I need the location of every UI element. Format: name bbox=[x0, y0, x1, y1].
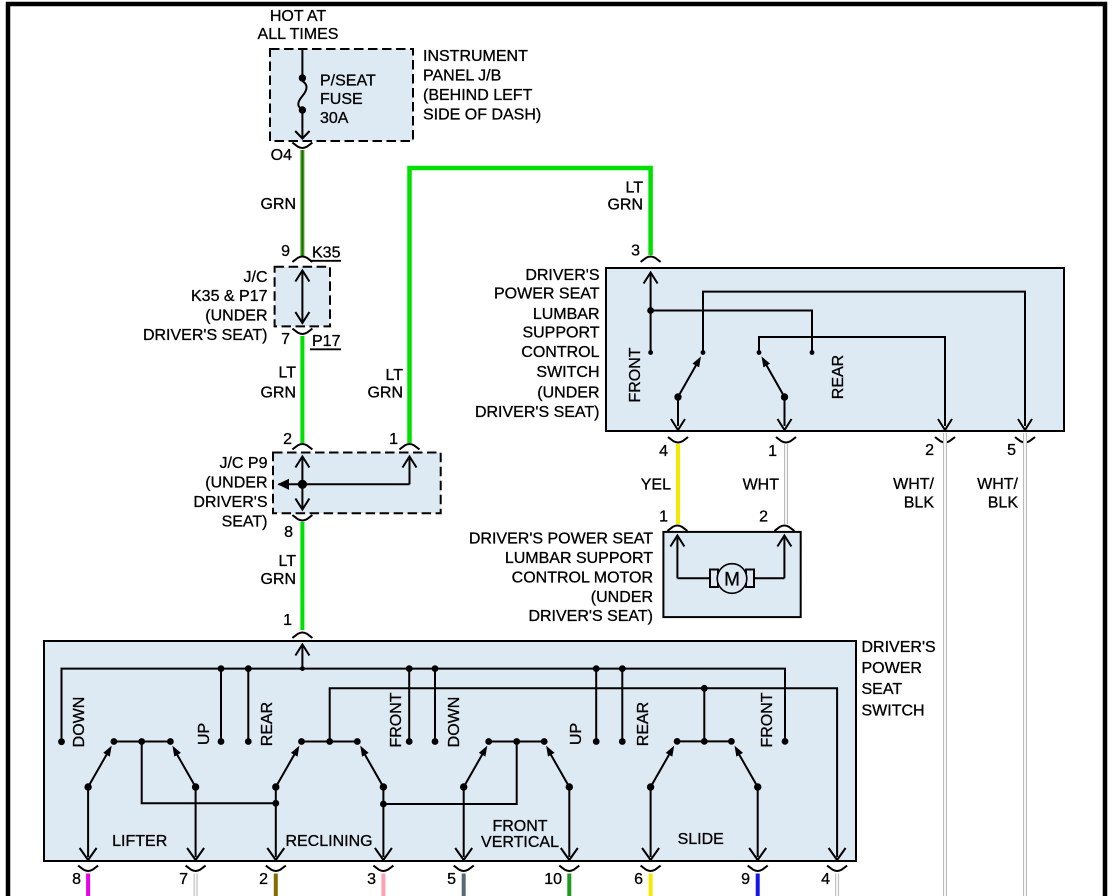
motor pin 1 entry arrow bbox=[670, 536, 710, 579]
wire: bus2 drop to slide common bbox=[703, 688, 705, 741]
pin 4 internal down arrow bbox=[829, 848, 846, 860]
pin 4 connector + wire WHT bbox=[821, 866, 847, 896]
svg-text:8: 8 bbox=[284, 524, 293, 541]
pin 3 connector + wire PNK bbox=[367, 866, 393, 896]
pin 7 connector + wire WHT bbox=[179, 866, 206, 896]
svg-text:1: 1 bbox=[389, 431, 398, 448]
stub UP (lifter) bbox=[218, 665, 225, 745]
svg-text:GRN: GRN bbox=[607, 197, 643, 214]
svg-text:DRIVER'S: DRIVER'S bbox=[525, 267, 599, 284]
svg-text:DOWN: DOWN bbox=[446, 697, 463, 748]
svg-text:1: 1 bbox=[283, 612, 292, 629]
wire LT GRN (J/C P9 pin 8 to seat switch pin 1) bbox=[260, 522, 302, 630]
lumbar contact D (fixed) bbox=[810, 350, 815, 355]
pin 5 connector + wire GRY bbox=[447, 866, 474, 896]
pin 1 connector (seat switch) bbox=[283, 612, 312, 638]
svg-text:HOT AT: HOT AT bbox=[270, 8, 327, 25]
pin 4 connector (lumbar switch) bbox=[659, 437, 688, 460]
svg-text:LIFTER: LIFTER bbox=[112, 833, 167, 850]
pin 2 connector (lumbar switch) bbox=[925, 437, 955, 459]
wire LT GRN (P17 to J/C P9 pin 2) bbox=[260, 336, 302, 443]
lumbar contact C (fixed) bbox=[757, 350, 762, 355]
slide contact row bbox=[674, 738, 735, 745]
svg-text:LT: LT bbox=[626, 179, 644, 196]
wire WHT/BLK (lumbar pin 2 down) bbox=[893, 433, 945, 896]
wire: reclining sw2 link to front vertical common bbox=[380, 742, 517, 808]
pin 6 connector + wire YEL bbox=[634, 866, 661, 896]
stub REAR (lifter) bbox=[245, 665, 252, 745]
stub DOWN (reclining) bbox=[432, 665, 439, 745]
svg-text:DRIVER'S SEAT): DRIVER'S SEAT) bbox=[528, 608, 653, 625]
pin 2 connector (lumbar motor) bbox=[759, 508, 794, 531]
svg-text:8: 8 bbox=[72, 871, 81, 888]
bus 1 (top feed bus) bbox=[62, 669, 786, 741]
lumbar support control motor M1 bbox=[469, 531, 801, 626]
wire LT GRN loop (J/C P9 pin 1 up and over to lumbar switch pin 3) bbox=[367, 168, 650, 443]
bus 2 (to pin 4) bbox=[330, 688, 837, 857]
svg-text:SEAT: SEAT bbox=[862, 681, 903, 698]
svg-text:LUMBAR: LUMBAR bbox=[533, 306, 600, 323]
svg-text:BLK: BLK bbox=[904, 495, 935, 512]
svg-text:SEAT): SEAT) bbox=[222, 514, 268, 531]
svg-text:(UNDER: (UNDER bbox=[205, 308, 267, 325]
svg-text:FRONT: FRONT bbox=[388, 692, 405, 747]
motor symbol M bbox=[710, 564, 754, 594]
lifter contact row bbox=[111, 738, 174, 745]
wire: contact C over to pin 2 bbox=[759, 337, 945, 426]
svg-text:3: 3 bbox=[367, 871, 376, 888]
svg-text:RECLINING: RECLINING bbox=[285, 833, 372, 850]
svg-text:9: 9 bbox=[741, 871, 750, 888]
pin 2 connector + wire BRN bbox=[259, 866, 286, 896]
svg-text:REAR: REAR bbox=[830, 355, 847, 399]
lumbar contact A (fixed, feed) bbox=[648, 350, 653, 355]
svg-text:SUPPORT: SUPPORT bbox=[522, 325, 599, 342]
pin 5 internal down arrow bbox=[1018, 419, 1032, 430]
pin 5 connector (lumbar switch) bbox=[1007, 437, 1035, 459]
svg-text:UP: UP bbox=[568, 723, 585, 745]
svg-text:SWITCH: SWITCH bbox=[862, 703, 925, 720]
svg-text:LT: LT bbox=[386, 367, 404, 384]
pin 1 connector (lumbar motor) bbox=[659, 508, 687, 531]
switch arm slide REAR (pin 6) bbox=[642, 744, 677, 860]
svg-text:SWITCH: SWITCH bbox=[536, 364, 599, 381]
svg-text:1: 1 bbox=[659, 508, 668, 525]
svg-text:SLIDE: SLIDE bbox=[678, 831, 724, 848]
pin 7 connector P17 bbox=[281, 329, 341, 350]
motor pin 2 entry arrow bbox=[754, 536, 792, 579]
svg-text:REAR: REAR bbox=[259, 702, 276, 746]
node: FRONT contact (slide) bbox=[782, 738, 789, 745]
stub UP (front vertical) bbox=[593, 665, 600, 745]
switch arm front vertical DOWN (pin 5) bbox=[455, 744, 490, 860]
svg-text:WHT/: WHT/ bbox=[893, 476, 934, 493]
pin 1 connector (J/C P9) bbox=[389, 431, 419, 449]
svg-text:CONTROL: CONTROL bbox=[521, 344, 599, 361]
switch arm reclining FRONT (pin 2) bbox=[267, 744, 302, 860]
seat switch pin 1 entry arrow bbox=[295, 645, 309, 671]
pin 9 connector K35 bbox=[281, 243, 341, 262]
svg-text:DRIVER'S: DRIVER'S bbox=[193, 494, 267, 511]
svg-text:FRONT: FRONT bbox=[627, 347, 644, 402]
pin 9 connector + wire BLU bbox=[741, 866, 768, 896]
pin 8 connector (J/C P9) bbox=[284, 515, 312, 541]
svg-text:ALL TIMES: ALL TIMES bbox=[258, 26, 339, 43]
svg-text:WHT/: WHT/ bbox=[977, 476, 1018, 493]
pin 8 connector + wire MAG bbox=[72, 866, 98, 896]
svg-text:GRN: GRN bbox=[367, 385, 403, 402]
svg-text:YEL: YEL bbox=[641, 477, 671, 494]
svg-text:4: 4 bbox=[659, 443, 668, 460]
pin O4 connector bbox=[271, 143, 313, 164]
pin 3 connector (lumbar switch) bbox=[631, 243, 661, 262]
svg-text:CONTROL MOTOR: CONTROL MOTOR bbox=[512, 569, 653, 586]
svg-text:(UNDER: (UNDER bbox=[537, 384, 599, 401]
pin 10 connector + wire GRN bbox=[544, 866, 579, 896]
svg-text:DOWN: DOWN bbox=[71, 697, 88, 748]
J/C K35 & P17 junction connector bbox=[143, 267, 330, 344]
svg-text:M: M bbox=[724, 570, 740, 591]
svg-text:2: 2 bbox=[925, 442, 934, 459]
svg-text:J/C: J/C bbox=[244, 269, 268, 286]
pin 2 internal down arrow bbox=[938, 419, 952, 430]
svg-text:GRN: GRN bbox=[260, 196, 296, 213]
wire: lifter common link to pin 2 stem bbox=[142, 742, 279, 807]
svg-text:3: 3 bbox=[631, 243, 640, 260]
svg-text:(UNDER: (UNDER bbox=[205, 475, 267, 492]
node: DOWN contact (lifter) bbox=[58, 738, 65, 745]
svg-text:2: 2 bbox=[283, 431, 292, 448]
svg-text:SIDE OF DASH): SIDE OF DASH) bbox=[423, 107, 541, 124]
svg-text:O4: O4 bbox=[271, 147, 292, 164]
stub FRONT (reclining) bbox=[406, 665, 413, 745]
svg-text:FUSE: FUSE bbox=[320, 91, 363, 108]
node: bus2 junction to slide bbox=[701, 685, 708, 692]
svg-text:GRN: GRN bbox=[260, 385, 296, 402]
front vertical contact row bbox=[485, 738, 547, 745]
svg-text:5: 5 bbox=[1007, 442, 1016, 459]
fuse P/SEAT FUSE 30A bbox=[295, 49, 376, 139]
wire: contact B up over to pin 5 bbox=[703, 292, 1025, 426]
switch arm reclining REAR (pin 3) bbox=[357, 744, 392, 860]
svg-text:WHT: WHT bbox=[743, 477, 780, 494]
lumbar switch arm REAR bbox=[758, 355, 847, 430]
svg-text:K35 & P17: K35 & P17 bbox=[191, 288, 268, 305]
svg-text:POWER: POWER bbox=[862, 660, 922, 677]
svg-text:(BEHIND LEFT: (BEHIND LEFT bbox=[423, 87, 533, 104]
svg-text:POWER SEAT: POWER SEAT bbox=[494, 285, 600, 302]
svg-text:FRONT: FRONT bbox=[759, 692, 776, 747]
svg-text:30A: 30A bbox=[320, 110, 349, 127]
svg-text:LT: LT bbox=[279, 365, 297, 382]
svg-text:4: 4 bbox=[821, 871, 830, 888]
svg-text:DRIVER'S SEAT): DRIVER'S SEAT) bbox=[143, 327, 268, 344]
svg-text:P17: P17 bbox=[312, 333, 341, 350]
lumbar switch pin 3 entry arrow bbox=[644, 273, 658, 352]
lumbar switch arm FRONT bbox=[627, 347, 704, 430]
svg-text:7: 7 bbox=[179, 871, 188, 888]
svg-text:FRONT: FRONT bbox=[492, 818, 547, 835]
reclining contact row bbox=[298, 738, 361, 745]
stub REAR (front vertical) bbox=[619, 665, 626, 745]
svg-text:7: 7 bbox=[281, 331, 290, 348]
svg-text:6: 6 bbox=[634, 871, 643, 888]
lumbar support control switch S1 bbox=[475, 267, 1064, 431]
instrument panel J/B box bbox=[270, 48, 541, 141]
svg-text:GRN: GRN bbox=[260, 571, 296, 588]
svg-text:UP: UP bbox=[196, 723, 213, 745]
svg-text:DRIVER'S POWER SEAT: DRIVER'S POWER SEAT bbox=[469, 531, 653, 548]
switch arm lifter DOWN (pin 8) bbox=[80, 744, 115, 860]
switch arm front vertical UP (pin 10) bbox=[543, 744, 578, 860]
svg-text:2: 2 bbox=[259, 871, 268, 888]
svg-text:1: 1 bbox=[768, 443, 777, 460]
node: HOT AT ALL TIMES bbox=[258, 8, 339, 43]
node: lumbar feed junction bbox=[647, 307, 654, 314]
svg-text:LUMBAR SUPPORT: LUMBAR SUPPORT bbox=[505, 550, 653, 567]
svg-text:9: 9 bbox=[281, 243, 290, 260]
pin 1 connector (lumbar switch) bbox=[768, 437, 796, 460]
svg-text:REAR: REAR bbox=[635, 702, 652, 746]
pin 2 connector (J/C P9) bbox=[283, 431, 312, 449]
J/C P9 junction connector bbox=[193, 453, 440, 531]
wire YEL (lumbar pin 4 to motor pin 1) bbox=[641, 444, 678, 524]
svg-text:10: 10 bbox=[544, 871, 562, 888]
svg-text:LT: LT bbox=[279, 553, 297, 570]
wire GRN (O4 to K35) bbox=[260, 150, 302, 256]
driver's power seat switch S2 bbox=[44, 639, 936, 861]
svg-text:VERTICAL: VERTICAL bbox=[481, 834, 559, 851]
svg-text:(UNDER: (UNDER bbox=[591, 589, 653, 606]
svg-text:BLK: BLK bbox=[988, 495, 1019, 512]
wire WHT (lumbar pin 1 to motor pin 2) bbox=[743, 444, 786, 524]
wire: junction to contact D bbox=[651, 311, 812, 352]
svg-text:DRIVER'S: DRIVER'S bbox=[862, 639, 936, 656]
svg-text:2: 2 bbox=[759, 508, 768, 525]
svg-text:PANEL J/B: PANEL J/B bbox=[423, 68, 501, 85]
svg-text:K35: K35 bbox=[312, 245, 341, 262]
svg-text:INSTRUMENT: INSTRUMENT bbox=[423, 48, 528, 65]
lumbar contact B (fixed) bbox=[701, 350, 706, 355]
svg-text:DRIVER'S SEAT): DRIVER'S SEAT) bbox=[475, 404, 600, 421]
svg-text:5: 5 bbox=[447, 871, 456, 888]
svg-text:P/SEAT: P/SEAT bbox=[320, 72, 376, 89]
wire WHT/BLK (lumbar pin 5 down) bbox=[977, 433, 1025, 896]
switch arm slide FRONT (pin 9) bbox=[731, 744, 766, 860]
svg-text:J/C P9: J/C P9 bbox=[219, 455, 267, 472]
switch arm lifter UP (pin 7) bbox=[169, 744, 204, 860]
